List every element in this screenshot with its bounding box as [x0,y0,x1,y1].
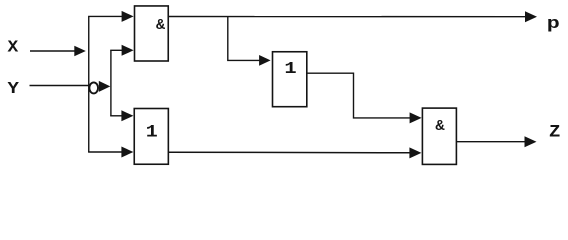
arrowhead X into node V1 [74,46,86,57]
AND gate U1 label & [156,17,165,34]
output label P [547,14,560,33]
svg-text:&: & [435,117,445,135]
arrowhead into AND1 input2 [122,45,134,56]
AND gate U4 label & [435,117,445,135]
arrowhead into AND1 input1 [122,11,134,22]
svg-text:Z: Z [549,122,560,142]
arrowhead into U4 input2 [409,147,421,158]
AND gate U1 box [135,6,169,61]
wire U2 output to U4 bottom input [168,151,412,154]
arrowhead into OR1 input2 [121,147,133,158]
OR gate U2 box [134,109,168,165]
OR gate U2 label 1 [146,121,158,142]
arrowhead Y into node V2 [99,81,111,92]
svg-text:1: 1 [284,58,296,78]
output label Z [549,122,560,142]
arrowhead into U3 input [259,55,271,66]
svg-text:1: 1 [146,121,158,142]
arrowhead at output P [525,11,537,22]
wire Y input [30,85,93,87]
arrowhead at output Z [525,136,537,147]
wire U4 output to Z [456,141,527,143]
svg-text:&: & [156,17,165,34]
wire V1 to OR1 bottom input [88,151,124,153]
node V2 vertical wire (Y fan-out) [110,50,112,116]
input label Y [8,80,20,99]
svg-text:X: X [8,38,19,58]
wire branch from P line down to U3 [228,17,262,61]
wire U3 output to U4 top input [307,73,412,118]
wire V2 to AND1 bottom input [110,49,124,51]
input label X [8,38,19,58]
AND gate U4 box [422,108,456,164]
wire U1 output to P [168,16,528,18]
wire X input [30,50,76,52]
gate U3 box (1) [273,52,307,107]
wire V1 to AND1 top input [88,15,124,17]
wire V2 to OR1 top input [110,115,124,117]
gate U3 label 1 [284,58,296,78]
node V1 vertical wire (X fan-out) [88,16,90,152]
svg-text:p: p [547,14,560,33]
arrowhead into OR1 input1 [121,110,133,121]
arrowhead into U4 input1 [410,112,422,123]
svg-text:Y: Y [8,80,20,99]
crossover bubble on Y wire [89,82,98,93]
